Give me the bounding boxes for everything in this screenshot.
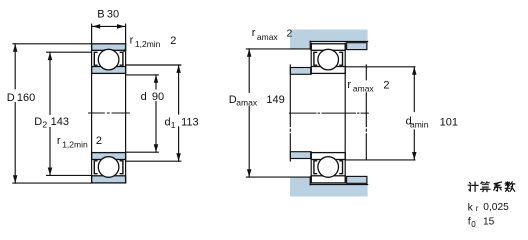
shield top-right	[340, 52, 343, 65]
housing bore line top	[310, 41, 367, 43]
svg-text:d: d	[141, 91, 147, 103]
svg-text:0,025: 0,025	[483, 202, 509, 213]
housing top block (blue, with shoulder step)	[290, 30, 368, 49]
damin arrow up	[412, 67, 417, 75]
glyph 计	[468, 182, 478, 191]
D2 arrow up	[48, 52, 53, 60]
shaft cut end face line	[289, 65, 291, 161]
svg-text:0: 0	[471, 220, 476, 229]
d1 dimension line	[178, 65, 180, 114]
svg-text:149: 149	[266, 94, 284, 106]
svg-text:1,2min: 1,2min	[135, 39, 161, 49]
B arrow left	[92, 24, 100, 29]
d dimension line	[155, 75, 157, 89]
Damax extension line top	[246, 48, 310, 50]
housing shoulder step face top	[309, 41, 311, 49]
glyph 算	[481, 182, 490, 192]
svg-text:amax: amax	[236, 98, 258, 108]
shield top-left	[94, 52, 97, 65]
shaft shoulder bottom (blue)	[290, 152, 310, 159]
bearing outer ring bottom section (white)	[311, 176, 345, 183]
ball top	[318, 49, 339, 70]
svg-text:D: D	[34, 116, 42, 128]
Damax extension line bottom	[246, 176, 310, 178]
shield bottom-left	[94, 161, 97, 174]
svg-text:15: 15	[483, 217, 495, 228]
svg-text:D: D	[7, 92, 15, 104]
shield bottom-right	[340, 161, 343, 174]
svg-text:2: 2	[287, 27, 293, 39]
bearing left face line	[310, 43, 312, 183]
d1 dimension extension line top	[126, 64, 181, 66]
damin dimension line	[413, 67, 415, 112]
B arrow right	[117, 24, 125, 29]
B dimension line	[92, 25, 125, 27]
centerline axis	[289, 112, 368, 114]
ball top	[98, 49, 119, 70]
svg-text:r: r	[130, 34, 134, 46]
svg-text:113: 113	[181, 117, 199, 129]
d arrow up	[154, 75, 159, 83]
D2 dimension line	[49, 52, 51, 114]
housing bore line bottom	[310, 184, 367, 186]
bearing inner ring top section (blue)	[92, 67, 126, 74]
centerline axis	[89, 112, 130, 114]
d dimension extension line bottom	[126, 151, 159, 153]
svg-text:k: k	[468, 201, 474, 213]
glyph 系	[494, 182, 502, 191]
Damax dimension line	[248, 49, 250, 92]
bearing inner ring bottom section (blue)	[92, 153, 126, 160]
shield bottom-right	[120, 161, 123, 174]
bearing left face line	[91, 24, 93, 183]
svg-text:amax: amax	[257, 32, 279, 42]
spacer ring top (blue)	[347, 43, 367, 50]
r amax reference line (vertical)	[365, 65, 367, 160]
svg-text:r: r	[476, 204, 479, 213]
svg-text:2: 2	[383, 79, 389, 91]
heading 计算系数 (drawn as paths)	[468, 182, 514, 192]
D2 dimension extension line bottom	[47, 174, 92, 176]
housing bottom block (blue, with shoulder step)	[290, 177, 368, 196]
bearing right face line	[125, 24, 127, 183]
svg-text:1,2min: 1,2min	[62, 139, 88, 149]
shaft shoulder top (blue)	[290, 68, 310, 75]
housing shoulder step face bottom	[309, 177, 311, 185]
damin arrow down	[412, 152, 417, 160]
svg-text:B: B	[97, 9, 104, 21]
d dimension extension line top	[126, 74, 159, 76]
svg-text:r: r	[347, 79, 351, 91]
bearing inner ring top section (white)	[311, 67, 345, 74]
r leader arrowhead at bearing top-right corner	[123, 48, 127, 53]
svg-text:90: 90	[152, 91, 164, 103]
D dimension extension line top	[13, 43, 92, 45]
svg-text:1: 1	[171, 120, 176, 130]
svg-text:30: 30	[107, 9, 119, 21]
D2 dimension extension line top	[47, 51, 92, 53]
svg-text:2: 2	[42, 120, 47, 130]
spacer ring bottom (blue)	[347, 176, 367, 183]
svg-text:143: 143	[51, 116, 69, 128]
bearing outer ring top section (blue)	[92, 44, 126, 51]
svg-text:101: 101	[440, 117, 458, 129]
shield top-left	[314, 52, 317, 65]
d1 dimension extension line bottom	[126, 160, 181, 162]
D arrow down	[13, 175, 18, 183]
ball bottom	[98, 157, 119, 178]
svg-text:2: 2	[96, 135, 102, 147]
damin extension line bottom	[346, 159, 415, 161]
ball bottom	[318, 157, 339, 178]
shield top-right	[120, 52, 123, 65]
svg-text:160: 160	[17, 92, 35, 104]
D dimension extension line bottom	[13, 182, 92, 184]
svg-text:amax: amax	[353, 83, 375, 93]
D dimension line	[14, 44, 16, 89]
glyph 数	[505, 182, 515, 192]
svg-text:r: r	[57, 135, 61, 147]
svg-text:r: r	[252, 27, 256, 39]
svg-text:2: 2	[170, 35, 176, 47]
D2 arrow down	[48, 168, 53, 176]
d1 arrow down	[176, 153, 181, 161]
D arrow up	[13, 44, 18, 52]
bearing right face line	[344, 43, 346, 183]
shield bottom-left	[314, 161, 317, 174]
Damax arrow up	[247, 49, 252, 57]
bearing outer ring bottom section (blue)	[92, 176, 126, 183]
svg-text:amin: amin	[410, 120, 429, 130]
d arrow down	[154, 144, 159, 152]
bearing outer ring top section (white)	[311, 44, 345, 51]
Damax arrow down	[247, 169, 252, 177]
damin extension line top	[346, 66, 415, 68]
d1 arrow up	[176, 65, 181, 73]
bearing inner ring bottom section (white)	[311, 153, 345, 160]
